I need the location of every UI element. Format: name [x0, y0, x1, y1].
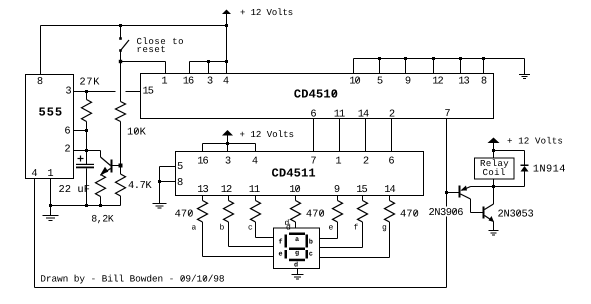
wire pin 5 drop: [379, 59, 381, 74]
wire CD4511 pin5: [160, 166, 176, 168]
label 27K: [80, 78, 99, 85]
label Close to reset: [137, 37, 183, 44]
node junction switch top on rail: [119, 24, 122, 27]
node pin8 junction: [158, 180, 161, 183]
7-segment display box: [274, 228, 320, 269]
pin 10 label: [350, 77, 360, 84]
ground for CD4511 pins 5 8: [153, 203, 167, 205]
pin 4 label: [223, 77, 228, 84]
resistor R3 4.7K: [120, 166, 122, 175]
pin 9 label: [406, 77, 411, 84]
wire diode bottom to relay bottom: [524, 172, 526, 187]
pin 6 label: [311, 110, 316, 117]
wire segment e to display: [337, 222, 339, 239]
transistor Q1 emitter with arrow: [102, 169, 111, 175]
display letter g: [295, 251, 298, 256]
label Relay: [481, 159, 509, 168]
wire segment f to display: [362, 222, 364, 248]
wire segment c to display: [255, 222, 257, 238]
pin 2 label: [364, 157, 369, 164]
wire top rail from 555 pin8 to +12V stem: [41, 25, 227, 27]
pin 16 label: [198, 157, 208, 164]
transistor Q3 collector: [485, 204, 494, 210]
node pin4 bus junction: [225, 60, 228, 63]
wire 555 pin1 drop: [50, 179, 52, 206]
display segment bar e: [285, 250, 288, 259]
pin 14 label: [385, 185, 395, 192]
pin 4 label: [32, 169, 37, 176]
resistor Rc 470: [255, 196, 257, 201]
display letter e: [279, 252, 282, 256]
wire pin 4 drop: [226, 62, 228, 74]
node switch bottom junction: [119, 60, 122, 63]
wire bus over pins 16 3 4: [190, 61, 227, 63]
diode D1 1N914 cathode bar: [521, 165, 529, 167]
wire CD4510 pin2 to CD4511 pin6: [391, 119, 393, 152]
wire 555 pin 8 drop: [40, 26, 42, 75]
wire to diode top: [494, 150, 525, 152]
pin 10 label: [290, 185, 300, 192]
node pin1/rail junction: [49, 204, 52, 207]
diode D1 triangle: [521, 166, 529, 172]
node pin2/cap junction: [85, 149, 88, 152]
display segment bar d: [289, 259, 305, 262]
label segment c: [249, 225, 253, 229]
label CD4511: [272, 168, 315, 176]
pin 4 label: [252, 157, 257, 164]
resistor Ra 470: [202, 196, 204, 201]
pin 2 label: [390, 110, 395, 117]
pin 16 label: [184, 77, 194, 84]
label 2N3053: [498, 210, 533, 217]
display segment bar g: [289, 248, 305, 251]
label + 12 Volts top: [241, 8, 293, 15]
pin 15 label: [143, 87, 153, 94]
ground for 2N3053 emitter: [489, 230, 499, 232]
label d above display: [285, 219, 289, 225]
wire CD4510 pin11 to CD4511 pin1: [339, 119, 341, 152]
pin 15 label: [357, 185, 367, 192]
transistor Q1 base bar: [111, 160, 113, 173]
label 555: [39, 108, 61, 116]
label segment e: [329, 225, 333, 229]
wire CD4510 pin14 to CD4511 pin2: [365, 119, 367, 152]
label 2N3906: [427, 207, 463, 217]
pin 13 label: [198, 185, 208, 192]
label segment g: [383, 225, 387, 231]
pin 14 label: [359, 110, 369, 117]
wire CD4510 top bus to ground: [354, 58, 525, 60]
wire +12V stem down to bus: [226, 26, 228, 62]
resistor Rd 470: [295, 196, 297, 201]
wire pin 3 drop: [208, 62, 210, 74]
wire segment d to display: [295, 222, 297, 228]
pin 3 label: [226, 157, 231, 164]
display letter a: [295, 237, 299, 241]
node relay/diode/collector junction: [492, 185, 495, 188]
transistor Q2 2N3906 base bar: [459, 186, 461, 198]
transistor Q2 emitter with arrow: [462, 187, 471, 191]
wire segment a to display: [202, 222, 204, 257]
label + 12 Volts mid: [240, 130, 293, 137]
timer U1 555 box: [26, 75, 74, 179]
counter U2 CD4510 box: [141, 74, 494, 119]
resistor R4 8.2K: [100, 175, 102, 176]
wire pin 9 drop: [405, 59, 407, 74]
pin 12 label: [433, 77, 443, 84]
resistor R1 27K: [86, 92, 88, 100]
pin 11 label: [335, 110, 345, 117]
wire CD4511 pin8: [160, 181, 176, 183]
transistor Q3 emitter with arrow: [485, 216, 494, 222]
+12V supply arrow mid: [222, 130, 233, 136]
wire CD4510 pin7 down right frame: [446, 119, 448, 288]
display letter d bottom: [294, 262, 297, 267]
+12V supply arrow top: [222, 10, 231, 15]
resistor R2 10K: [120, 62, 122, 102]
node pin3 bus junction: [207, 60, 210, 63]
wire pin 12 drop: [433, 59, 435, 74]
capacitor C1 plus sign: [78, 158, 84, 160]
pin 2 label: [65, 145, 70, 152]
transistor Q1 base wire to 10K/4.7K node: [113, 165, 121, 167]
display letter b: [309, 239, 312, 244]
wire pin 13 drop: [460, 59, 462, 74]
label Coil: [483, 168, 505, 175]
pin 7 label: [311, 157, 316, 164]
display segment bar f: [285, 235, 288, 248]
wire pin3 drop: [227, 144, 229, 152]
wire 555 pin4 down to frame: [34, 179, 36, 288]
ground under 555 rail: [50, 206, 52, 216]
label 1N914: [534, 165, 565, 172]
ground for CD4510 bus: [524, 59, 526, 75]
pin 1 label: [336, 157, 341, 164]
transistor Q3 2N3053 base bar: [483, 207, 485, 219]
decoder U3 CD4511 box: [176, 152, 424, 196]
pin 13 label: [459, 77, 469, 84]
transistor Q2 collector: [461, 194, 471, 199]
wire segment b to display: [228, 222, 230, 247]
wire pin5/pin8 join: [159, 167, 161, 204]
label segment b: [220, 224, 224, 230]
display letter f: [279, 239, 282, 244]
pin 6 label: [65, 127, 70, 134]
wire 2N3906 collector to 2N3053 base: [471, 212, 483, 214]
node Q1 base junction: [119, 164, 123, 168]
pin 8 label: [178, 178, 183, 185]
resistor Rb 470: [228, 196, 230, 201]
resistor Re 470: [337, 196, 339, 201]
wire CD4510 pin6 to CD4511 pin7: [313, 119, 315, 152]
display segment bar b: [306, 235, 309, 248]
pin 8 label: [482, 77, 487, 84]
resistor Rf 470: [362, 196, 364, 201]
wire pin4 drop: [255, 144, 257, 152]
node cap bottom junction: [85, 204, 88, 207]
label 470 mid: [306, 210, 324, 217]
resistor Rg 470: [389, 196, 391, 201]
transistor Q1 collector feed from pin2 wire: [100, 151, 102, 158]
wire ground rail under 555: [51, 205, 121, 207]
pin 7 label: [445, 109, 450, 116]
wire CD4511 supply bus over 16 3 4: [203, 143, 256, 145]
pin 1 label: [162, 77, 167, 84]
wire into CD4510 pin15 (right of gap): [126, 91, 141, 93]
pin 1 label: [48, 169, 53, 176]
wire 2N3906 base from frame: [447, 192, 459, 194]
wire pin 8 drop: [483, 59, 485, 74]
label Drawn by - Bill Bowden - 09/10/98: [41, 275, 224, 284]
node junction +12V stem on rail: [225, 24, 228, 27]
ground for display: [297, 269, 299, 275]
label segment d: [287, 224, 291, 230]
label segment f: [354, 224, 358, 230]
+12V supply arrow right: [488, 138, 500, 144]
label segment a: [192, 225, 196, 229]
label 8,2K: [92, 215, 114, 223]
pin 11 label: [250, 185, 260, 192]
label 470 right: [401, 210, 419, 217]
label 470 left: [175, 210, 193, 217]
pin 5 label: [178, 162, 183, 169]
pin 6 label: [389, 157, 394, 164]
relay coil box: [475, 158, 515, 179]
pin 5 label: [378, 77, 383, 84]
wire 555 pin3 out (left of 10K crossover gap): [74, 91, 116, 93]
wire emitter row 2N3906: [471, 186, 494, 188]
pin 3 label: [208, 77, 213, 84]
switch S1 close to reset: [120, 26, 122, 38]
wire bottom frame rail: [35, 287, 447, 289]
label 4.7K: [129, 181, 152, 188]
node pin6/27K junction: [85, 129, 88, 132]
wire pin6 to pin2 column: [86, 131, 88, 151]
wire 555 pin6: [74, 130, 87, 132]
label CD4510: [294, 89, 337, 97]
wire pin16 drop: [202, 144, 204, 152]
label + 12 Volts right: [508, 137, 563, 144]
label 22 uF: [59, 185, 89, 192]
wire relay coil bottom: [493, 179, 495, 187]
display segment bar a: [289, 233, 305, 236]
label 10K: [128, 128, 146, 135]
node relay top junction: [492, 149, 495, 152]
node 8.2K bottom junction: [99, 204, 102, 207]
wire segment g to display: [389, 222, 391, 258]
display segment bar c: [306, 250, 309, 259]
pin 3 label: [66, 87, 71, 94]
pin 9 label: [335, 185, 340, 192]
capacitor C1 22uF plates: [86, 151, 88, 164]
node 2N3906 base junction: [445, 191, 448, 194]
wire 555 pin2: [74, 150, 101, 152]
display letter c: [309, 252, 312, 256]
pin 8 label: [38, 77, 43, 84]
wire pin 16 drop: [189, 62, 191, 74]
wire switch to CD4510 pin 1: [121, 61, 166, 63]
pin 12 label: [222, 185, 232, 192]
node 27K top junction on pin3 wire: [85, 90, 88, 93]
